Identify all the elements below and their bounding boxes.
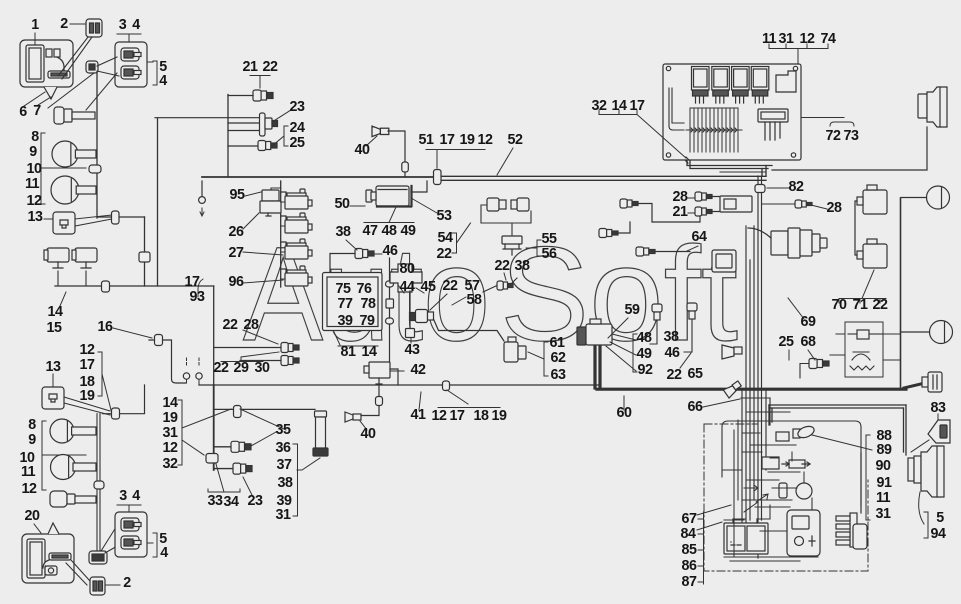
- wire main bus top line a: [437, 175, 766, 177]
- svg-text:27: 27: [229, 245, 244, 261]
- wires pair right: [710, 197, 744, 212]
- wire 2-to-unit1 diagonals: [58, 37, 92, 79]
- unit 1 internals: [26, 45, 70, 82]
- bracket 67-87: [698, 512, 704, 584]
- trunk x228: [227, 95, 229, 177]
- leader 64: [687, 246, 698, 251]
- svg-text:91: 91: [877, 475, 892, 491]
- leader 50: [350, 205, 365, 207]
- svg-text:2: 2: [60, 16, 68, 32]
- thermal switch symbol: [850, 352, 874, 370]
- horn 15: [72, 248, 97, 268]
- screw d: [791, 153, 795, 157]
- bracket 54 22: [452, 223, 471, 253]
- fusebox channel: [669, 88, 684, 130]
- relay d: [281, 266, 312, 286]
- head lamp 94: [908, 446, 944, 497]
- wire 40b: [361, 404, 379, 416]
- svg-text:21: 21: [243, 59, 258, 75]
- leader 83: [911, 414, 938, 452]
- svg-text:89: 89: [877, 442, 892, 458]
- box 20: [22, 523, 74, 583]
- connector 21 pair b: [695, 207, 712, 216]
- leader 8-12 bracket: [41, 133, 86, 204]
- wire 38d down: [650, 320, 657, 344]
- svg-text:32: 32: [592, 98, 607, 114]
- svg-text:49: 49: [401, 223, 416, 239]
- tail lamp connector right: [922, 372, 942, 392]
- leader 72 73 line: [801, 118, 854, 127]
- wire 25/68 stub: [800, 364, 809, 379]
- screw c: [666, 153, 670, 157]
- wires 22/38 b: [483, 278, 517, 292]
- connector 4 bottom: [121, 536, 141, 549]
- bracket 5/4 top: [147, 61, 157, 85]
- wire fusebox exit pair: [687, 160, 772, 169]
- bracket 47 48 49: [364, 207, 414, 223]
- trunk left headlamp: [96, 72, 98, 218]
- leader 66: [703, 399, 740, 407]
- svg-text:4: 4: [160, 545, 168, 561]
- horn 14: [44, 248, 69, 268]
- svg-text:22: 22: [437, 246, 452, 262]
- svg-text:52: 52: [508, 132, 523, 148]
- connector 4 top: [121, 66, 141, 79]
- svg-text:80: 80: [400, 261, 415, 277]
- connector 38/46 mid: [355, 249, 374, 259]
- leader 12-19 row: [438, 390, 500, 408]
- unit 95/26 flasher: [260, 190, 281, 216]
- svg-text:12: 12: [80, 342, 95, 358]
- svg-text:70: 70: [832, 297, 847, 313]
- cluster jogs: [722, 398, 818, 561]
- leader 57 58: [430, 294, 466, 310]
- svg-text:43: 43: [405, 342, 420, 358]
- leader 16: [113, 328, 152, 338]
- svg-text:59: 59: [625, 302, 640, 318]
- oval junction b: [386, 318, 394, 324]
- svg-text:79: 79: [360, 313, 375, 329]
- svg-text:1: 1: [31, 17, 39, 33]
- svg-text:87: 87: [682, 574, 697, 590]
- svg-text:38: 38: [336, 224, 351, 240]
- svg-text:4: 4: [132, 17, 140, 33]
- svg-text:45: 45: [421, 279, 436, 295]
- bracket 88-31: [866, 435, 870, 520]
- condenser cylinder: [779, 483, 787, 498]
- svg-text:84: 84: [681, 526, 696, 542]
- svg-text:85: 85: [682, 542, 697, 558]
- box 13 top: [53, 212, 75, 234]
- svg-text:51: 51: [419, 132, 434, 148]
- svg-text:31: 31: [876, 506, 891, 522]
- svg-text:76: 76: [357, 281, 372, 297]
- svg-text:61: 61: [550, 335, 565, 351]
- svg-text:19: 19: [460, 132, 475, 148]
- wire harness 66 double: [769, 405, 906, 408]
- right column vertical: [900, 198, 902, 387]
- trunk x157: [157, 118, 159, 286]
- svg-text:18: 18: [474, 408, 489, 424]
- horn legs: [58, 271, 86, 286]
- connector 23: [260, 113, 278, 136]
- wire main bus lower: [199, 384, 600, 386]
- leader 13 bottom: [52, 374, 54, 386]
- leader 52: [497, 148, 513, 175]
- battery top wires: [733, 505, 770, 519]
- svg-text:9: 9: [28, 432, 36, 448]
- connector 3 bottom: [121, 518, 141, 531]
- connector 10 sleeve: [89, 165, 101, 173]
- bracket 12 17 18 19: [98, 352, 111, 410]
- svg-text:56: 56: [542, 246, 557, 262]
- leader 60: [623, 396, 625, 410]
- relay trunk: [280, 181, 282, 287]
- stub node circle: [201, 181, 203, 196]
- wire lamp tr: [772, 127, 927, 170]
- junction sleeve 16: [155, 335, 163, 346]
- trunk bottom headlamps: [97, 414, 100, 554]
- wires to connector 23: [155, 118, 259, 131]
- wire relays col: [855, 201, 857, 255]
- connector 28 pair a: [695, 192, 712, 201]
- svg-text:2: 2: [123, 575, 131, 591]
- leader 95: [245, 192, 261, 196]
- connector 23 lower: [233, 463, 252, 474]
- terminal dashes: [187, 358, 200, 366]
- switch box right: [845, 322, 883, 377]
- svg-text:14: 14: [163, 395, 178, 411]
- leader sender: [297, 458, 320, 470]
- connector 3 top: [121, 48, 141, 61]
- svg-text:6: 6: [19, 104, 27, 120]
- leader 42: [391, 370, 404, 372]
- branch 23: [214, 468, 233, 470]
- box lamps 3/4 bottom: [115, 512, 147, 557]
- bracket 70 71 22: [839, 270, 886, 303]
- fuse comb strip: [686, 108, 742, 152]
- connector near 64b: [636, 247, 655, 256]
- connector 38d: [652, 304, 662, 320]
- connector 28 mid: [620, 199, 638, 208]
- connector 2 bottom: [90, 577, 105, 595]
- connector 22/28: [281, 343, 299, 353]
- svg-text:12: 12: [432, 408, 447, 424]
- screw a: [666, 66, 670, 70]
- panel right wire: [389, 258, 391, 363]
- box 13 bottom: [42, 387, 64, 409]
- svg-text:13: 13: [46, 359, 61, 375]
- svg-text:58: 58: [467, 292, 482, 308]
- cluster extra wires: [734, 420, 812, 556]
- leader 84: [697, 522, 722, 530]
- svg-text:42: 42: [411, 362, 426, 378]
- svg-text:3: 3: [119, 488, 127, 504]
- connector 35: [231, 441, 251, 452]
- svg-text:31: 31: [779, 31, 794, 47]
- wires bullets left: [214, 348, 281, 361]
- dash-dot frame: [704, 424, 868, 571]
- leader 1: [34, 33, 36, 44]
- svg-text:19: 19: [163, 410, 178, 426]
- relay c: [281, 239, 312, 259]
- wire 46b down: [684, 319, 692, 352]
- terminal stubs: [187, 380, 200, 385]
- svg-text:41: 41: [411, 407, 426, 423]
- svg-text:48: 48: [637, 330, 652, 346]
- svg-text:44: 44: [400, 279, 415, 295]
- wire bus pair mid: [720, 171, 766, 173]
- svg-text:12: 12: [800, 31, 815, 47]
- leader 67: [697, 505, 731, 515]
- wires unit20 to 2b: [66, 560, 90, 585]
- svg-text:34: 34: [224, 494, 239, 510]
- svg-text:22: 22: [873, 297, 888, 313]
- leader 21 dash: [688, 212, 694, 214]
- headlamp 8/9: [52, 141, 96, 167]
- bracket 24 25: [284, 126, 288, 146]
- svg-text:40: 40: [361, 426, 376, 442]
- terminal circle: [199, 197, 206, 204]
- unit 42 (flasher): [364, 362, 390, 384]
- connector 61/62/63: [504, 337, 526, 362]
- svg-text:25: 25: [290, 135, 305, 151]
- connector pair tp a: [487, 198, 506, 211]
- svg-text:32: 32: [163, 456, 178, 472]
- svg-text:67: 67: [682, 511, 697, 527]
- svg-text:24: 24: [290, 120, 305, 136]
- leader 28 dash: [688, 197, 694, 199]
- ignition switch: [771, 228, 827, 258]
- headlamp 8/9 bottom: [50, 419, 96, 443]
- square junction: [386, 299, 394, 308]
- svg-text:46: 46: [383, 243, 398, 259]
- svg-text:38: 38: [278, 475, 293, 491]
- svg-text:95: 95: [230, 187, 245, 203]
- bracket 48 49 92: [633, 334, 637, 372]
- inner box br: [722, 421, 861, 505]
- wire marker r2: [901, 331, 930, 333]
- marker lamp r1: [927, 186, 950, 209]
- bracket 36-31: [293, 444, 298, 516]
- leader 41: [419, 392, 421, 410]
- bracket 32 14 17: [599, 110, 686, 158]
- wire harness 60 thick: [595, 346, 906, 389]
- fusebox exit dots: [685, 157, 689, 163]
- relay 64: [712, 250, 736, 272]
- svg-text:31: 31: [163, 425, 178, 441]
- leader 26: [243, 213, 259, 229]
- leader 59: [608, 318, 628, 338]
- svg-text:47: 47: [363, 223, 378, 239]
- breaker symbol: [848, 330, 883, 339]
- svg-text:81: 81: [341, 344, 356, 360]
- leader 53: [411, 198, 437, 213]
- small box br: [762, 457, 779, 469]
- connector 46b: [687, 303, 697, 319]
- svg-text:38: 38: [515, 258, 530, 274]
- svg-text:14: 14: [48, 304, 63, 320]
- svg-text:17: 17: [630, 98, 645, 114]
- relay module 2 in fuse box: [712, 67, 730, 104]
- leader 17 93 bracket: [198, 279, 203, 297]
- wire junction row bottom: [103, 385, 145, 414]
- svg-text:11: 11: [25, 176, 40, 192]
- marker lamp r2: [930, 321, 953, 344]
- bracket 81 14: [334, 332, 378, 346]
- connector 22/30: [281, 356, 299, 366]
- leader 35: [251, 432, 276, 446]
- svg-text:20: 20: [25, 508, 40, 524]
- svg-text:53: 53: [437, 208, 452, 224]
- terminal circle b: [196, 373, 202, 379]
- bracket 14-32 stack: [178, 400, 231, 465]
- bracket 22 29 30: [221, 352, 279, 362]
- leader 25 68: [789, 350, 815, 360]
- svg-text:8: 8: [31, 129, 39, 145]
- svg-text:10: 10: [27, 161, 42, 177]
- leader 69: [788, 298, 804, 319]
- wire 46 to panel: [330, 254, 355, 273]
- svg-text:7: 7: [33, 103, 41, 119]
- svg-text:28: 28: [244, 317, 259, 333]
- wire 42 right: [390, 369, 398, 385]
- relay module 3 in fuse box: [732, 67, 750, 104]
- svg-text:26: 26: [229, 224, 244, 240]
- svg-text:35: 35: [276, 422, 291, 438]
- leader 5 94: [919, 492, 928, 538]
- plate 83: [928, 420, 950, 443]
- part 80 plus-shape: [390, 264, 422, 292]
- side lamp top right: [918, 87, 947, 127]
- junction sleeve 40 top: [402, 162, 409, 172]
- svg-text:12: 12: [478, 132, 493, 148]
- svg-text:29: 29: [234, 360, 249, 376]
- junction sleeve 41: [443, 381, 450, 391]
- distributor circle: [796, 483, 812, 499]
- wire blockC up: [860, 453, 862, 513]
- svg-text:22: 22: [214, 360, 229, 376]
- bracket 3 4 top: [117, 34, 141, 41]
- wire main bus top line b: [437, 179, 766, 181]
- leader 46 mid: [374, 253, 382, 255]
- wire 40b up: [378, 385, 380, 396]
- leader 24-25: [272, 136, 284, 146]
- svg-text:74: 74: [821, 31, 836, 47]
- svg-text:63: 63: [551, 367, 566, 383]
- relay module 1 in fuse box: [692, 67, 710, 104]
- leader 22 65: [680, 353, 691, 368]
- junction sleeve 40b: [376, 397, 383, 406]
- leader 6 7: [24, 92, 51, 106]
- svg-text:8: 8: [28, 417, 36, 433]
- horn 40 top: [372, 126, 389, 137]
- horn 40 bottom: [345, 412, 361, 422]
- wires box13 to junction: [75, 215, 112, 226]
- wire 66 left drop: [769, 405, 772, 425]
- resistor br: [782, 460, 810, 468]
- bracket 33 34: [208, 464, 240, 492]
- svg-text:22: 22: [223, 317, 238, 333]
- svg-text:86: 86: [682, 558, 697, 574]
- svg-text:13: 13: [28, 209, 43, 225]
- leader 23 lower: [243, 477, 252, 495]
- bracket 8-12 bottom: [42, 421, 86, 490]
- bracket 5/4 bottom: [147, 533, 157, 557]
- svg-text:17: 17: [440, 132, 455, 148]
- trunk mid drop: [144, 217, 146, 286]
- svg-text:4: 4: [159, 73, 167, 89]
- svg-text:90: 90: [876, 458, 891, 474]
- svg-text:39: 39: [338, 313, 353, 329]
- trunk x213 upper: [213, 286, 215, 385]
- leader 41row: [240, 409, 286, 430]
- leader 43: [410, 338, 412, 343]
- svg-text:69: 69: [801, 314, 816, 330]
- svg-text:12: 12: [163, 440, 178, 456]
- wire 64b: [653, 251, 690, 253]
- svg-text:82: 82: [789, 179, 804, 195]
- svg-text:19: 19: [80, 388, 95, 404]
- leader 22 28: [243, 330, 278, 344]
- svg-text:19: 19: [492, 408, 507, 424]
- svg-text:38: 38: [664, 329, 679, 345]
- svg-text:96: 96: [229, 274, 244, 290]
- connector 21/22: [253, 90, 273, 101]
- relay small top right: [776, 71, 796, 92]
- leader 88 89: [812, 435, 872, 450]
- svg-text:11: 11: [876, 490, 891, 506]
- leader 40 top: [366, 136, 377, 146]
- speaker icon br2: [723, 380, 743, 398]
- svg-text:22: 22: [667, 367, 682, 383]
- speaker icon br1: [722, 345, 742, 359]
- bracket 61 62 63: [544, 342, 548, 376]
- terminal arrow: [200, 208, 204, 216]
- oval junction a: [386, 281, 394, 287]
- wires cap to box34b: [101, 524, 119, 553]
- lamp 6/7 plug: [54, 107, 95, 124]
- column box: [720, 196, 752, 212]
- unit 50 shadow: [377, 186, 412, 207]
- svg-text:14: 14: [612, 98, 627, 114]
- wire bus riser right a: [762, 166, 766, 177]
- svg-text:17: 17: [450, 408, 465, 424]
- svg-text:50: 50: [335, 196, 350, 212]
- svg-text:48: 48: [382, 223, 397, 239]
- svg-text:12: 12: [22, 481, 37, 497]
- connector 24/25: [258, 141, 277, 151]
- connector 25/68: [809, 359, 829, 369]
- relay stubs: [281, 202, 285, 279]
- connector cap 2-way: [86, 61, 98, 73]
- dome lamp 55/56: [502, 236, 522, 255]
- leader 61s: [528, 352, 544, 359]
- unit 50 (wiper motor): [366, 186, 409, 206]
- svg-text:93: 93: [190, 289, 205, 305]
- instrument panel 75-79: [323, 273, 383, 331]
- bracket 51 17 19 12: [426, 150, 485, 169]
- screw b: [793, 66, 797, 70]
- leader 28e: [811, 205, 827, 209]
- wires box13b to junction: [64, 397, 110, 415]
- svg-text:92: 92: [638, 362, 653, 378]
- svg-text:5: 5: [936, 510, 944, 526]
- svg-text:49: 49: [637, 346, 652, 362]
- svg-text:71: 71: [853, 297, 868, 313]
- wire 28e: [762, 203, 795, 205]
- connector 82: [755, 185, 765, 193]
